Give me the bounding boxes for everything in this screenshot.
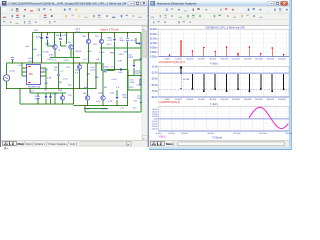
wire right loop (127, 70, 129, 91)
toolbar row2 icons (2, 14, 7, 19)
transistor Q2 (69, 45, 73, 49)
diode D1 (46, 36, 49, 39)
svg-text:20.00m: 20.00m (150, 34, 158, 36)
capacitor C12 (139, 42, 141, 45)
schematic canvas (1, 26, 142, 141)
diode D5 (133, 60, 135, 64)
plot2 zero band (159, 72, 290, 74)
svg-text:120.00K: 120.00K (232, 99, 240, 101)
left tab bar (1, 140, 148, 147)
wire (60, 33, 62, 38)
plot2 black stems (180, 67, 182, 74)
svg-text:10.00: 10.00 (152, 67, 158, 69)
wire (140, 60, 142, 76)
wire (127, 48, 129, 106)
svg-text:200.00K: 200.00K (278, 99, 286, 101)
wire (47, 33, 49, 36)
wire bottom right rail (74, 105, 128, 107)
svg-text:TUN2: TUN2 (98, 93, 104, 95)
wire top rail (33, 32, 142, 34)
diode D3b (50, 93, 52, 96)
wire out (128, 75, 146, 77)
right toolbars (149, 7, 289, 26)
svg-text:1/(V(AD(OUT))(RL,0),%: 1/(V(AD(OUT))(RL,0),% (159, 61, 186, 64)
right title bar (149, 0, 289, 7)
wire (101, 33, 103, 39)
plot3 sine V(Buf) (249, 107, 288, 128)
svg-text:14.02: 14.02 (99, 52, 105, 54)
svg-text:100.00K: 100.00K (221, 58, 229, 60)
svg-text:100n: 100n (123, 97, 129, 99)
wire (32, 33, 34, 64)
left window frame (0, 0, 148, 147)
svg-text:160.00K: 160.00K (255, 99, 263, 101)
svg-text:2.0K: 2.0K (47, 78, 52, 80)
plot3 axis (159, 130, 290, 132)
wire (60, 41, 62, 46)
capacitor C18 (140, 57, 143, 59)
svg-text:1.2K: 1.2K (86, 74, 91, 76)
svg-text:4.7K: 4.7K (118, 61, 123, 63)
svg-text:24.00m: 24.00m (150, 29, 158, 31)
svg-text:-40.00: -40.00 (152, 128, 159, 130)
svg-text:MC: MC (29, 72, 33, 76)
transistor Q3 (86, 39, 90, 43)
capacitor C3 (126, 38, 129, 40)
svg-text:470u: 470u (35, 99, 41, 101)
svg-text:F (Hz): F (Hz) (210, 102, 217, 106)
r toolbar row3 icons (150, 20, 155, 25)
svg-text:80.00K: 80.00K (210, 58, 217, 60)
svg-text:140.00K: 140.00K (244, 58, 252, 60)
wire (114, 48, 116, 70)
svg-text:40.00K: 40.00K (187, 99, 194, 101)
wire (127, 33, 129, 38)
svg-text:0.00u: 0.00u (156, 133, 162, 135)
wire (114, 42, 116, 48)
plot3 zero band (159, 118, 290, 120)
wire (54, 33, 56, 45)
svg-text:T (Secs): T (Secs) (212, 135, 222, 139)
svg-text:100u: 100u (136, 43, 142, 45)
capacitor C1 (40, 36, 43, 38)
svg-text:1%: 1% (54, 70, 57, 72)
capacitor C7 (37, 93, 39, 96)
plot1 box (159, 29, 290, 56)
wire right mid (106, 69, 128, 71)
wire IC right pins (41, 67, 47, 69)
source V1 (3, 75, 9, 81)
r toolbar row2 icons (150, 14, 155, 19)
svg-text:180.00K: 180.00K (267, 58, 275, 60)
plot2 box (159, 67, 290, 98)
toolbar row1 icons (2, 7, 7, 12)
svg-text:3.2K: 3.2K (49, 55, 54, 57)
capacitor C8 (11, 57, 14, 59)
svg-text:+5.00: +5.00 (28, 61, 34, 63)
svg-text:+56.1: +56.1 (75, 31, 81, 33)
svg-text:Max = 170 mA: Max = 170 mA (101, 27, 119, 31)
svg-text:200.00u: 200.00u (285, 133, 292, 135)
wire mid right rail (100, 47, 141, 49)
svg-text:HC(MP4_M): HC(MP4_M) (28, 87, 40, 89)
svg-text:-70.00: -70.00 (151, 91, 158, 93)
svg-text:+5.00: +5.00 (28, 58, 34, 60)
svg-text:120.00u: 120.00u (233, 133, 241, 135)
svg-text:+28.1: +28.1 (118, 54, 124, 56)
svg-text:C:\MC12\DATA\Petrov\V12068-6L_: C:\MC12\DATA\Petrov\V12068-6L_AVR_Output… (9, 2, 127, 6)
diode D4 (116, 90, 118, 96)
transistor Q5 (62, 93, 64, 95)
svg-text:40.186: 40.186 (183, 79, 190, 81)
svg-text:0.000m: 0.000m (150, 57, 158, 59)
diode D3 (45, 93, 47, 96)
svg-text:140.00K: 140.00K (244, 99, 252, 101)
wire (41, 33, 43, 64)
wire (88, 44, 90, 63)
plot area bg (149, 26, 289, 141)
svg-text:30.2K: 30.2K (76, 51, 82, 53)
svg-text:16.00m: 16.00m (150, 38, 158, 40)
diode D14 (140, 102, 143, 105)
svg-text:8.000m: 8.000m (150, 47, 158, 49)
svg-text:-90.00: -90.00 (151, 97, 158, 99)
wire (95, 63, 97, 89)
svg-text:4.000m: 4.000m (150, 52, 158, 54)
svg-text:+0.57: +0.57 (111, 79, 117, 81)
wire (21, 63, 23, 76)
capacitor C10 (57, 73, 60, 75)
svg-text:-10.00: -10.00 (151, 73, 158, 75)
svg-text:470u: 470u (36, 37, 42, 39)
svg-text:1N: 1N (44, 90, 47, 92)
transistor Q7 (102, 63, 104, 95)
wire emitter rail (54, 50, 56, 58)
svg-text:Harmonic Distortion Analysis: Harmonic Distortion Analysis (157, 2, 197, 6)
wire (73, 33, 75, 45)
wire lower long rail (7, 88, 74, 90)
svg-text:2.8w: 2.8w (130, 82, 135, 84)
svg-text:80.00u: 80.00u (208, 133, 215, 135)
svg-text:80.00K: 80.00K (210, 99, 217, 101)
svg-text:20.00u: 20.00u (168, 133, 175, 135)
svg-text:-57.9: -57.9 (64, 60, 70, 62)
wire stub (84, 108, 108, 110)
wire (54, 93, 56, 104)
wire (88, 33, 90, 39)
svg-text:-50.00: -50.00 (151, 85, 158, 87)
toolbar row3 icons (2, 20, 7, 25)
wire (140, 76, 142, 113)
svg-text:►: ► (127, 143, 129, 146)
transistor Q8 (77, 65, 81, 69)
svg-text:-30.00: -30.00 (151, 79, 158, 81)
plot2 cursor annotation (180, 75, 182, 89)
svg-text:V(Buf): V(Buf) (159, 136, 166, 139)
svg-text:-0.67: -0.67 (90, 70, 96, 72)
plot2 dashed line (159, 89, 290, 91)
svg-text:S.E.7: S.E.7 (43, 70, 49, 72)
svg-text:180.00K: 180.00K (267, 99, 275, 101)
plot2 axis (159, 96, 290, 98)
svg-text:(V(AMPRFS)(RL,0): (V(AMPRFS)(RL,0) (159, 101, 181, 104)
svg-text:+55.4: +55.4 (130, 40, 136, 42)
svg-text:160.00K: 160.00K (255, 58, 263, 60)
wire (6, 63, 8, 75)
svg-text:+7.43: +7.43 (62, 79, 68, 81)
svg-text:+56.2: +56.2 (75, 29, 81, 31)
wire (127, 42, 129, 49)
wire (19, 89, 21, 105)
svg-text:12.00m: 12.00m (150, 43, 158, 45)
svg-text:◄◄ ►►: ◄◄ ►► (151, 143, 162, 146)
wire (114, 33, 116, 38)
svg-text:Main: Main (166, 142, 173, 146)
plot1 red stems (169, 55, 171, 56)
wire (29, 89, 31, 94)
svg-text:-0.0V: -0.0V (137, 98, 143, 100)
svg-text:F (Hz): F (Hz) (210, 62, 217, 66)
transistor Q1 (53, 45, 57, 49)
svg-text:33K: 33K (58, 82, 62, 84)
svg-text:+0.57: +0.57 (136, 85, 142, 87)
right window frame (148, 0, 292, 147)
svg-text:40.00u: 40.00u (181, 133, 188, 135)
r toolbar row1 icons (150, 7, 155, 12)
transistor Q4 (99, 39, 103, 43)
svg-text:12.0K: 12.0K (43, 52, 49, 54)
diode D2 (113, 39, 116, 42)
svg-text:60.00K: 60.00K (198, 58, 205, 60)
capacitor C11 (103, 69, 105, 72)
plot1 axis (159, 56, 290, 58)
svg-text:100u: 100u (120, 40, 126, 42)
svg-text:60.00K: 60.00K (198, 99, 205, 101)
wire bottom-most rail (85, 111, 141, 113)
resistor R70 (140, 79, 142, 85)
svg-text:200.00K: 200.00K (278, 58, 286, 60)
svg-text:Models 1: Models 1 (35, 142, 46, 146)
svg-text:100.00K: 100.00K (221, 99, 229, 101)
aero frame (289, 0, 292, 150)
wire long mid rail (7, 62, 74, 64)
capacitor C9 (119, 68, 121, 71)
wire (101, 44, 103, 63)
op-amp U1 optocoupler box (27, 65, 41, 85)
plot3 box (159, 107, 290, 132)
wire (140, 48, 142, 60)
svg-text:LHly: LHly (70, 142, 76, 146)
svg-text:+4.37: +4.37 (101, 109, 107, 111)
right tab bar (149, 140, 289, 146)
svg-text:+44.2: +44.2 (47, 59, 53, 61)
wire (12, 60, 14, 63)
svg-text:100K: 100K (45, 44, 51, 46)
stray mark (5, 147, 6, 149)
svg-text:120.00K: 120.00K (232, 58, 240, 60)
wire (66, 33, 68, 45)
capacitor C2 (59, 37, 62, 39)
left toolbars (1, 7, 148, 26)
svg-text:+55.1: +55.1 (106, 44, 112, 46)
svg-text:4.7K: 4.7K (34, 30, 39, 32)
svg-text:40.00K: 40.00K (187, 58, 194, 60)
svg-text:4.7K: 4.7K (53, 94, 58, 96)
svg-text:Text1: Text1 (26, 142, 33, 146)
svg-text:160.00u: 160.00u (259, 133, 267, 135)
wire (140, 33, 142, 49)
junction dots (41, 32, 42, 33)
svg-text:◄◄ ►►: ◄◄ ►► (3, 143, 14, 146)
svg-text:Power Supplies: Power Supplies (49, 142, 68, 146)
v scrollbar (142, 26, 148, 141)
transistor Q6 (87, 63, 89, 95)
wire (73, 44, 75, 104)
svg-text:+0.00: +0.00 (9, 71, 15, 73)
